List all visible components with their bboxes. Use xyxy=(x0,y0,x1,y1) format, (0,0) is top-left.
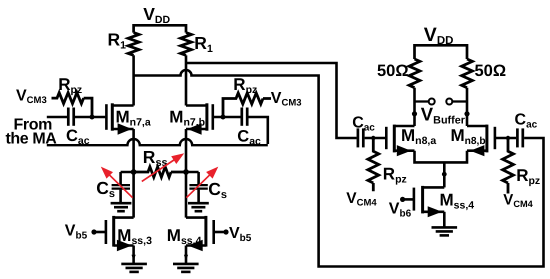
wire Mn7b gate to Cac (right) xyxy=(214,116,241,119)
svg-text:Rpz: Rpz xyxy=(58,75,82,96)
wire Vb5 to Mss3 gate xyxy=(94,231,105,234)
terminal dot Vb5 left xyxy=(91,229,96,234)
transistor Mss3 xyxy=(105,220,108,244)
capacitor Cs (right) xyxy=(186,172,199,184)
wire right drain output to Mn8a input xyxy=(186,63,357,138)
svg-text:VBuffer: VBuffer xyxy=(421,103,466,126)
wire Mss3 source to ground xyxy=(132,246,135,264)
wire Mss4 gate to Vb5 xyxy=(215,231,226,234)
ground Mss4 (second stage) xyxy=(432,226,458,229)
resistor Rpz (Mn8b) xyxy=(503,138,514,194)
ground Mss4 (first stage) xyxy=(173,263,199,266)
junction Rpz tap (Mn8a) xyxy=(371,136,375,140)
svg-text:Cac: Cac xyxy=(515,111,538,130)
wire VDD rail (second stage) xyxy=(415,44,468,59)
svg-text:R1: R1 xyxy=(194,33,213,55)
transistor Mn8b xyxy=(494,127,497,149)
resistor Rss xyxy=(134,167,186,177)
svg-text:Mn8,a: Mn8,a xyxy=(401,126,436,147)
resistor 50ohm (left) xyxy=(409,59,420,88)
junction Vbuffer right xyxy=(464,111,469,116)
junction Rpz/gate (right) xyxy=(221,115,226,120)
capacitor Cac (left input) xyxy=(67,108,70,126)
resistor R1 (right) xyxy=(181,33,192,56)
svg-text:VCM4: VCM4 xyxy=(503,192,533,209)
resistor R1 (left) xyxy=(128,33,139,56)
resistor Rpz (Mn8a) xyxy=(368,138,379,191)
svg-text:Rpz: Rpz xyxy=(233,75,257,96)
svg-text:Cac: Cac xyxy=(66,127,90,147)
wire Cac to Mn8a gate xyxy=(365,137,387,140)
junction Rpz/gate (left) xyxy=(90,115,95,120)
transistor Mss4 (first stage) xyxy=(212,220,215,244)
svg-text:Mss,3: Mss,3 xyxy=(117,226,152,247)
svg-text:Cs: Cs xyxy=(96,178,115,200)
svg-text:Vb5: Vb5 xyxy=(229,225,252,244)
tuning arrow Rss xyxy=(142,158,177,181)
resistor 50ohm (right) xyxy=(462,59,473,88)
svg-text:Cs: Cs xyxy=(208,179,227,201)
svg-text:Vb6: Vb6 xyxy=(389,200,412,219)
wire Mn7a source column xyxy=(132,129,135,218)
transistor Mn8a xyxy=(385,127,388,149)
svg-text:Rpz: Rpz xyxy=(516,166,540,187)
svg-text:Rss: Rss xyxy=(143,147,168,169)
wire Mn8a drain column xyxy=(413,88,416,126)
svg-text:Mn8,b: Mn8,b xyxy=(451,126,486,147)
resistor Rpz (right of first stage) xyxy=(223,93,271,117)
junction node Rss right xyxy=(183,169,189,175)
resistor Rpz (left) xyxy=(52,93,93,117)
wire Cac to Mn7a gate xyxy=(75,116,105,119)
svg-text:Vb5: Vb5 xyxy=(65,222,88,241)
capacitor Cac (right input) xyxy=(240,108,243,126)
wire tail tap xyxy=(443,162,446,187)
wire VDD rail (first stage) xyxy=(134,24,186,33)
wire Mss4 source to ground xyxy=(185,246,188,264)
junction Vbuffer left xyxy=(412,111,417,116)
svg-text:R1: R1 xyxy=(108,29,127,51)
junction tail xyxy=(442,172,447,177)
wire Vbuffer tap right xyxy=(453,100,467,102)
tuning arrow Cs left xyxy=(107,173,133,198)
terminal Vbuffer right xyxy=(446,99,452,105)
svg-text:Mn7,a: Mn7,a xyxy=(116,108,151,129)
wire left drain column xyxy=(132,55,135,105)
wire Cac right to bottom bus xyxy=(249,117,268,144)
wire Mn8b drain column xyxy=(466,88,469,126)
wire Mn8b gate to Cac xyxy=(496,137,516,140)
wire Mn7b source column xyxy=(185,129,188,218)
svg-text:Mss,4: Mss,4 xyxy=(440,191,475,212)
svg-text:VCM3: VCM3 xyxy=(16,88,47,107)
junction node Rss left xyxy=(131,169,137,175)
svg-text:Rpz: Rpz xyxy=(383,164,407,185)
wire right drain column xyxy=(185,55,188,105)
wire left drain output to Mn8b input (with crossover hump) xyxy=(134,70,544,267)
terminal Vbuffer left xyxy=(429,99,435,105)
svg-text:VCM3: VCM3 xyxy=(271,90,302,109)
wire bottom input bus (with crossover humps) xyxy=(47,139,268,145)
junction Rpz tap (Mn8b) xyxy=(506,136,510,140)
wire Mn8 source rail xyxy=(415,151,468,163)
tuning arrow Cs right xyxy=(186,173,212,198)
svg-text:50Ω: 50Ω xyxy=(475,62,507,80)
capacitor Cac (Mn8a input) xyxy=(357,128,360,147)
wire Vbuffer tap left xyxy=(415,100,429,102)
svg-text:VDD: VDD xyxy=(424,24,454,47)
transistor Mn7b xyxy=(212,104,215,130)
svg-text:Mss,4: Mss,4 xyxy=(167,226,202,247)
ground Mss3 xyxy=(121,263,147,266)
ground Cs right xyxy=(188,202,209,205)
svg-text:VCM4: VCM4 xyxy=(346,190,377,209)
wire Vb6 to gate xyxy=(403,198,413,201)
capacitor Cs (left) xyxy=(121,172,134,184)
terminal dot Vb6 xyxy=(400,197,405,202)
svg-text:Mn7,b: Mn7,b xyxy=(169,108,205,129)
svg-text:50Ω: 50Ω xyxy=(377,62,409,80)
svg-text:Cac: Cac xyxy=(352,114,375,133)
terminal dot Vb5 right xyxy=(223,229,228,234)
ground Cs left xyxy=(111,202,132,205)
svg-text:VDD: VDD xyxy=(143,4,170,26)
transistor Mss4 (second stage) xyxy=(413,188,416,211)
wire Mss4 source to ground xyxy=(443,212,446,228)
transistor Mn7a xyxy=(105,104,108,130)
capacitor Cac (Mn8b input) xyxy=(516,128,519,147)
wire input to Cac (left) xyxy=(47,116,67,119)
